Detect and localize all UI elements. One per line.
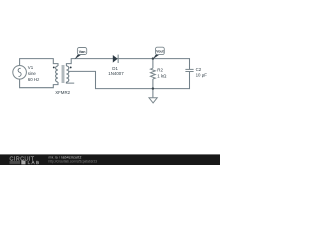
svg-text:Vout: Vout (156, 50, 164, 54)
svg-text:1N4007: 1N4007 (108, 71, 124, 76)
svg-text:sine: sine (28, 71, 37, 76)
svg-text:V1: V1 (28, 65, 34, 70)
svg-text:http://circuitlab.com/c/5cpafa: http://circuitlab.com/c/5cpafab3r23 (49, 160, 98, 164)
svg-text:60 Hz: 60 Hz (28, 77, 39, 82)
svg-text:R2: R2 (157, 68, 163, 73)
svg-text:Van: Van (79, 49, 87, 54)
svg-text:LAB: LAB (28, 160, 41, 165)
svg-text:D1: D1 (112, 66, 118, 71)
svg-text:XFMR2: XFMR2 (55, 90, 70, 95)
svg-text:C2: C2 (196, 67, 202, 72)
svg-text:10 µF: 10 µF (196, 73, 208, 78)
svg-text:1 kΩ: 1 kΩ (157, 73, 167, 78)
